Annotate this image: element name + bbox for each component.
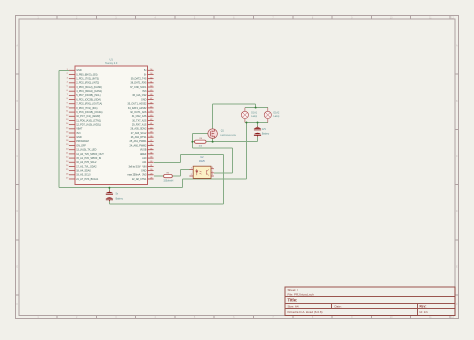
wire collector vertical — [232, 148, 234, 173]
lamp D1A2 — [264, 108, 271, 123]
svg-text:C: C — [456, 155, 458, 158]
svg-text:1_PD1_(TX2)_(INT3): 1_PD1_(TX2)_(INT3) — [76, 78, 99, 81]
svg-text:44: 44 — [150, 111, 152, 113]
svg-text:7_PD2_(RX1)_(OUT1A): 7_PD2_(RX1)_(OUT1A) — [76, 103, 102, 106]
svg-text:49: 49 — [150, 90, 152, 92]
svg-text:15_A1_PV0_SPDIF_IN: 15_A1_PV0_SPDIF_IN — [76, 157, 101, 160]
svg-text:5: 5 — [212, 171, 213, 173]
svg-text:16_A2_PV5_SCL2: 16_A2_PV5_SCL2 — [76, 161, 97, 164]
junction BT2 tap — [257, 122, 259, 124]
svg-text:4_PD4_(SDA2)_(CAN1): 4_PD4_(SDA2)_(CAN1) — [76, 90, 102, 93]
svg-text:8_PD3_(TX1)_(IN1): 8_PD3_(TX1)_(IN1) — [76, 107, 97, 110]
wire net B across — [181, 153, 224, 155]
wire lamp1 bottom to emitter net — [246, 123, 248, 179]
svg-text:21: 21 — [66, 153, 68, 155]
microcontroller U1 Teensy 2.0 body — [75, 66, 148, 184]
svg-text:GND: GND — [76, 136, 82, 139]
svg-text:VBAT: VBAT — [76, 128, 83, 131]
wire jog to opto anode — [181, 168, 190, 170]
svg-text:42: 42 — [150, 119, 152, 121]
svg-text:150ohmH: 150ohmH — [163, 180, 173, 182]
svg-text:14: 14 — [66, 123, 68, 125]
wire battery BT2 top lead — [257, 123, 259, 127]
wire Q1 source lead — [212, 138, 214, 141]
junction lamp feed — [255, 107, 257, 109]
svg-text:26: 26 — [66, 173, 68, 175]
wire top feed rail — [213, 103, 256, 105]
svg-text:27: 27 — [66, 178, 68, 180]
svg-text:A10: A10 — [142, 157, 147, 160]
svg-text:D: D — [16, 210, 18, 213]
svg-text:23: 23 — [66, 161, 68, 163]
wire lamp top rail — [245, 107, 268, 109]
svg-text:40: 40 — [150, 127, 152, 129]
svg-text:52: 52 — [150, 77, 152, 79]
battery BT2 labels — [262, 129, 270, 136]
svg-text:Rev:: Rev: — [420, 304, 427, 308]
wire net B bottom run — [109, 203, 223, 205]
svg-text:Teensy 2.0: Teensy 2.0 — [105, 62, 118, 65]
svg-text:22_A8_CTN1: 22_A8_CTN1 — [132, 178, 147, 181]
junction Q1 source — [212, 141, 214, 143]
wire Q1 drain up — [212, 104, 214, 129]
svg-text:KiCad E.D.A. kicad (6.0.6): KiCad E.D.A. kicad (6.0.6) — [288, 310, 323, 314]
wire under optocoupler — [182, 178, 246, 180]
svg-text:1: 1 — [191, 168, 192, 170]
svg-text:16: 16 — [66, 132, 68, 134]
svg-text:45: 45 — [150, 107, 152, 109]
svg-text:33: 33 — [150, 157, 152, 159]
svg-text:6: 6 — [67, 90, 68, 92]
svg-text:10: 10 — [66, 107, 68, 109]
svg-text:54: 54 — [150, 69, 152, 71]
title block — [285, 287, 455, 315]
svg-text:Battery: Battery — [116, 197, 124, 200]
junction lamp1 bottom — [246, 122, 248, 124]
resistor R5 — [164, 175, 173, 178]
svg-text:41: 41 — [150, 123, 152, 125]
svg-text:6_PD1_(OC2B)_(SDA): 6_PD1_(OC2B)_(SDA) — [76, 98, 101, 101]
svg-text:38: 38 — [150, 136, 152, 138]
svg-text:19_A5_SCL0: 19_A5_SCL0 — [76, 174, 91, 177]
wire net B down — [223, 154, 225, 204]
svg-text:9_PC6_(OC1B)_(OC4A): 9_PC6_(OC1B)_(OC4A) — [76, 111, 102, 114]
svg-text:max 250mA 3V3: max 250mA 3V3 — [127, 174, 147, 177]
svg-text:AREF: AREF — [140, 153, 147, 156]
svg-text:38_DAT1_RX5: 38_DAT1_RX5 — [130, 82, 147, 85]
svg-text:29: 29 — [150, 173, 152, 175]
svg-text:D: D — [456, 210, 458, 213]
svg-text:Size: A4: Size: A4 — [288, 305, 299, 309]
wire U1 pin to R5 — [154, 175, 164, 177]
battery BT1 5v — [106, 192, 113, 199]
svg-text:31_CN2_A3S: 31_CN2_A3S — [132, 115, 147, 118]
svg-text:29_RX7_A1S: 29_RX7_A1S — [132, 123, 147, 126]
svg-text:4: 4 — [67, 81, 68, 83]
svg-text:GND: GND — [141, 98, 147, 101]
wire battery BT2 bottom lead — [257, 137, 259, 142]
svg-text:24: 24 — [66, 165, 68, 167]
U2 internal LED and phototransistor glyphs — [196, 169, 209, 176]
svg-text:30_TX7_A2S: 30_TX7_A2S — [132, 119, 147, 122]
svg-text:3V3: 3V3 — [76, 132, 81, 135]
svg-text:VUSB: VUSB — [140, 149, 147, 152]
wire source rail with R6 — [192, 141, 257, 143]
svg-text:3v6 to 5.5V VIN: 3v6 to 5.5V VIN — [129, 165, 147, 168]
svg-text:11_PD6_(A10)_(CTN1): 11_PD6_(A10)_(CTN1) — [76, 119, 101, 122]
svg-text:37: 37 — [150, 140, 152, 142]
svg-text:9: 9 — [67, 102, 68, 104]
U1 right pins 28-54 with numbers and names — [148, 70, 154, 179]
svg-text:3: 3 — [67, 77, 68, 79]
svg-text:46: 46 — [150, 102, 152, 104]
svg-text:GND: GND — [76, 69, 82, 72]
svg-text:3_PD3_(SCL2)_(CAN0): 3_PD3_(SCL2)_(CAN0) — [76, 86, 102, 89]
svg-text:5: 5 — [67, 86, 68, 88]
svg-text:A11: A11 — [142, 161, 147, 164]
svg-text:19: 19 — [66, 144, 68, 146]
wire opto collector stub run — [214, 172, 233, 174]
wire U1 pin to net B — [154, 161, 181, 163]
svg-text:12_PD7_(A10)_(AD2L): 12_PD7_(A10)_(AD2L) — [76, 123, 101, 126]
svg-text:12V: 12V — [262, 129, 267, 131]
svg-text:B-: B- — [144, 73, 147, 76]
svg-text:0_PB0_(BKG)_(SS): 0_PB0_(BKG)_(SS) — [76, 73, 97, 76]
svg-text:Date:: Date: — [335, 305, 342, 309]
svg-text:25_A61_PWM1: 25_A61_PWM1 — [130, 140, 148, 143]
svg-text:C: C — [16, 155, 18, 158]
svg-text:File: PRJ.kicad_sch: File: PRJ.kicad_sch — [288, 292, 315, 296]
svg-text:11: 11 — [66, 111, 68, 113]
optocoupler U2 4N25 body — [193, 166, 211, 178]
svg-text:17_A3_TVL_SDA2: 17_A3_TVL_SDA2 — [76, 165, 97, 168]
wire collector to gate node — [192, 147, 232, 149]
svg-text:30: 30 — [150, 169, 152, 171]
svg-text:5_PD7_(OC0B)_(SCL): 5_PD7_(OC0B)_(SCL) — [76, 94, 101, 97]
svg-text:53: 53 — [150, 73, 152, 75]
wire jog up — [180, 169, 182, 176]
wire U1 pin1 GND to left rail — [59, 69, 69, 71]
svg-text:31: 31 — [150, 165, 152, 167]
wire net B up — [180, 154, 182, 162]
svg-text:25: 25 — [66, 169, 68, 171]
svg-text:2_PD2_(RX2)_(INT2): 2_PD2_(RX2)_(INT2) — [76, 82, 99, 85]
U2 reference and value labels — [199, 156, 205, 163]
svg-text:22: 22 — [66, 157, 68, 159]
U2 pins with numbers — [189, 169, 213, 176]
svg-text:Lamp: Lamp — [251, 116, 257, 118]
wire feed drop — [255, 104, 257, 108]
lamp D1A1 labels — [251, 112, 257, 119]
svg-text:6: 6 — [212, 167, 213, 169]
svg-text:4: 4 — [212, 174, 213, 176]
wire rail up-turn — [181, 179, 183, 188]
svg-text:3V3: 3V3 — [142, 90, 147, 93]
wire bottom GND rail — [59, 187, 182, 189]
svg-text:2: 2 — [191, 174, 192, 176]
svg-text:24_A60_PWM2: 24_A60_PWM2 — [130, 144, 148, 147]
wire battery BT1 bottom lead — [108, 201, 110, 204]
svg-text:4N25: 4N25 — [199, 160, 205, 163]
svg-text:DMP3056LSDN: DMP3056LSDN — [220, 135, 236, 137]
svg-text:Id: 1/1: Id: 1/1 — [420, 310, 429, 314]
svg-text:35_OUT1_A0S52: 35_OUT1_A0S52 — [127, 103, 147, 106]
svg-text:32_OUT1_A0S: 32_OUT1_A0S — [130, 111, 147, 114]
wire lamp bottom rail — [245, 122, 268, 124]
svg-text:10_PC7_(C1)_(AD2R): 10_PC7_(C1)_(AD2R) — [76, 115, 100, 118]
svg-text:Title:: Title: — [288, 298, 298, 303]
U1 reference and value labels — [105, 57, 118, 65]
svg-text:17: 17 — [66, 136, 68, 138]
svg-text:12: 12 — [66, 115, 68, 117]
svg-text:13_(A10)_TX_LED: 13_(A10)_TX_LED — [76, 149, 96, 152]
svg-text:26_A62_RTS1: 26_A62_RTS1 — [131, 136, 147, 139]
svg-text:Lamp: Lamp — [274, 116, 280, 118]
wire gate node vertical — [191, 134, 193, 148]
wire gate horizontal — [192, 133, 207, 135]
wire left vertical GND rail — [58, 70, 60, 187]
transistor Q1 DMP3056LSDN — [208, 129, 218, 139]
svg-text:32: 32 — [150, 161, 152, 163]
svg-text:U1: U1 — [110, 57, 114, 61]
svg-text:D1A1: D1A1 — [251, 112, 257, 115]
svg-text:36: 36 — [150, 144, 152, 146]
battery BT2 12V — [254, 127, 261, 134]
svg-text:D1A2: D1A2 — [274, 112, 280, 115]
svg-text:15: 15 — [66, 127, 68, 129]
svg-text:2: 2 — [67, 73, 68, 75]
svg-text:51: 51 — [150, 81, 152, 83]
svg-text:37_CN0_SCK1: 37_CN0_SCK1 — [130, 86, 147, 89]
svg-text:39: 39 — [150, 132, 152, 134]
svg-text:18_A4_SDA0: 18_A4_SDA0 — [76, 169, 91, 172]
svg-text:28: 28 — [150, 178, 152, 180]
battery BT1 labels — [116, 194, 124, 201]
svg-text:7: 7 — [67, 94, 68, 96]
svg-text:8: 8 — [67, 98, 68, 100]
svg-text:28_A05_SDN2: 28_A05_SDN2 — [130, 128, 147, 131]
U1 left pins 1-27 with numbers and names — [69, 70, 75, 179]
svg-text:47: 47 — [150, 98, 152, 100]
svg-text:34_DAT4_A4S52: 34_DAT4_A4S52 — [128, 107, 147, 110]
lamp D1A2 labels — [274, 112, 280, 119]
wire R5 to jog — [172, 175, 180, 177]
resistor R6 — [195, 140, 207, 143]
svg-text:36_11A_CS2: 36_11A_CS2 — [132, 94, 147, 97]
lamp D1A1 — [241, 108, 248, 123]
wire battery BT1 top lead — [108, 188, 110, 191]
svg-text:GND: GND — [141, 169, 147, 172]
svg-text:18: 18 — [66, 140, 68, 142]
svg-text:27_A63_SCL2: 27_A63_SCL2 — [131, 132, 147, 135]
junction gate node — [191, 141, 193, 143]
transistor Q1 labels — [220, 130, 236, 138]
svg-text:13: 13 — [66, 119, 68, 121]
svg-text:21_A7_PVS_BC1A1: 21_A7_PVS_BC1A1 — [76, 178, 99, 181]
svg-text:43: 43 — [150, 115, 152, 117]
svg-text:PROGRAM: PROGRAM — [76, 140, 89, 143]
junction at BT1 tap — [108, 187, 110, 189]
svg-text:Battery: Battery — [262, 133, 270, 136]
svg-text:39_DAT2_T4S: 39_DAT2_T4S — [131, 78, 147, 81]
svg-text:ON_OFF: ON_OFF — [76, 144, 86, 147]
svg-text:50: 50 — [150, 86, 152, 88]
svg-text:14_A0_TV0_SPDIF_OUT: 14_A0_TV0_SPDIF_OUT — [76, 153, 104, 156]
svg-text:48: 48 — [150, 94, 152, 96]
svg-text:35: 35 — [150, 148, 152, 150]
svg-text:34: 34 — [150, 153, 152, 155]
svg-text:20: 20 — [66, 148, 68, 150]
